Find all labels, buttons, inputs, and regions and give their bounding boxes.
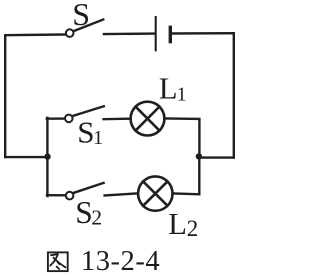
switch S (pivot circle) — [66, 29, 74, 37]
wire: branch 2 left segment — [47, 194, 65, 197]
svg-text:2: 2 — [187, 216, 199, 241]
svg-text:S: S — [72, 0, 90, 32]
switch S (blade) — [74, 20, 103, 31]
wire: switch S1 to lamp L1 — [104, 117, 130, 120]
wire: lamp L1 to right junction vertical — [165, 119, 200, 157]
switch S2 (pivot circle) — [66, 192, 74, 200]
lamp L2 (circle) — [138, 176, 172, 210]
svg-text:13-2-4: 13-2-4 — [81, 246, 160, 276]
switch S2 (blade) — [74, 183, 104, 193]
node: right junction dot — [196, 153, 202, 159]
wire: switch S to battery — [104, 32, 155, 35]
svg-text:L: L — [159, 72, 178, 106]
svg-text:S: S — [77, 114, 94, 149]
battery short plate (negative) — [169, 27, 172, 41]
battery long plate (positive) — [155, 17, 157, 50]
wire: right junction horizontal — [199, 156, 234, 158]
wire: top-left horizontal + left vertical side — [5, 35, 65, 158]
wire: left branch vertical — [46, 118, 48, 196]
svg-text:2: 2 — [91, 205, 102, 229]
lamp L2 (cross diagonal 1) — [143, 181, 167, 205]
svg-text:L: L — [168, 207, 187, 241]
switch S1 (blade) — [73, 106, 104, 116]
lamp L1 (cross diagonal 1) — [136, 107, 160, 131]
wire: switch S2 to lamp L2 — [105, 193, 138, 195]
lamp L2 (cross diagonal 2) — [143, 181, 167, 205]
wire: left junction horizontal — [5, 156, 47, 158]
lamp L1 (circle) — [131, 102, 165, 136]
svg-text:S: S — [75, 195, 93, 230]
svg-text:1: 1 — [177, 85, 187, 106]
switch S1 (pivot circle) — [65, 115, 73, 123]
svg-text:1: 1 — [93, 127, 103, 149]
caption character 图 (drawn) — [48, 252, 68, 271]
lamp L1 (cross diagonal 2) — [136, 107, 160, 131]
node: left junction dot — [44, 153, 50, 159]
wire: lamp L2 to right junction vertical — [173, 156, 199, 194]
wire: branch 1 left segment — [47, 117, 64, 119]
wire: battery to top-right corner + right vertical side — [172, 33, 234, 157]
